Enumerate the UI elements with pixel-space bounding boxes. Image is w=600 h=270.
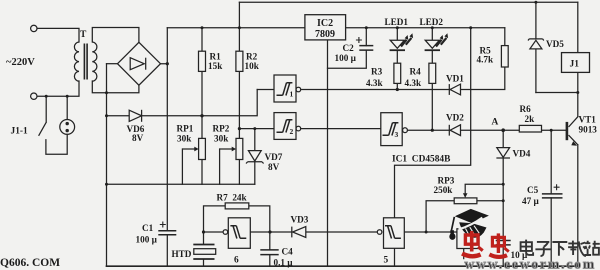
wire gate2 input: [239, 128, 274, 130]
wire 9V rail: [346, 27, 505, 29]
svg-text:4.7k: 4.7k: [477, 55, 494, 65]
svg-text:IC1 CD4584B: IC1 CD4584B: [392, 155, 450, 165]
wire gate3 output to node A to VT1 base: [407, 129, 566, 131]
gate U1e box: [384, 218, 405, 249]
wire gate1 output row: [301, 67, 505, 90]
svg-text:R2: R2: [246, 52, 258, 62]
wire C5 column: [550, 130, 552, 266]
svg-text:VD1: VD1: [446, 74, 464, 84]
capacitor C4 0.1u: [260, 250, 278, 255]
wire C2 connections: [328, 28, 367, 68]
label plus C2: [356, 37, 362, 43]
resistor R3 4.3k: [394, 63, 401, 83]
wire bridge left stub: [107, 63, 118, 65]
svg-text:8V: 8V: [268, 162, 280, 172]
svg-text:C4: C4: [282, 247, 294, 257]
bridge rectifier diamond: [118, 42, 161, 85]
svg-text:HTD: HTD: [172, 249, 192, 259]
svg-text:VD4: VD4: [513, 149, 531, 159]
bridge internal diode: [130, 58, 144, 70]
wire VD6 row: [107, 90, 258, 116]
resistor R4 4.3k: [429, 63, 436, 83]
label plus C1: [160, 222, 166, 228]
wire top rail +12V: [239, 1, 577, 3]
label plus C5: [554, 184, 560, 190]
wire RP3 wiper to VD4 line: [465, 183, 503, 185]
wire VD5 column: [535, 2, 537, 92]
svg-text:C5: C5: [527, 185, 539, 195]
svg-text:RP3: RP3: [438, 176, 455, 186]
svg-text:J1-1: J1-1: [11, 127, 28, 137]
wire terminal top to transformer primary: [37, 28, 79, 42]
capacitor C2 100u: [359, 46, 373, 51]
wire ground drop left: [106, 64, 108, 267]
transformer T secondary winding: [92, 42, 97, 81]
wire RP1 RP2 bottoms: [202, 160, 239, 185]
watermark text dianzi xiazaizhan: [521, 240, 600, 257]
svg-text:10k: 10k: [245, 61, 260, 71]
wire bottom ground rail: [107, 265, 578, 267]
diode VD2: [450, 125, 460, 136]
svg-text:A: A: [492, 118, 499, 128]
svg-text:3: 3: [395, 130, 399, 139]
wire VD7 column: [254, 129, 256, 185]
wire ground rail y184: [107, 183, 255, 185]
piezo HTD: [193, 245, 214, 260]
svg-text:4.3k: 4.3k: [366, 78, 383, 88]
wire secondary top to bridge: [92, 28, 139, 43]
resistor R5 4.7k: [501, 46, 508, 67]
wire J1 leads: [536, 2, 578, 92]
svg-text:2k: 2k: [525, 114, 536, 124]
capacitor C6 10u: [496, 241, 511, 245]
wire R7 leads: [204, 206, 270, 232]
switch J1-1 blade: [39, 122, 47, 136]
LED1: [390, 40, 404, 48]
svg-text:C2: C2: [343, 43, 355, 53]
svg-text:4.3k: 4.3k: [405, 78, 422, 88]
svg-text:T: T: [80, 30, 87, 40]
wire RP2 wiper drop: [219, 149, 221, 184]
wire bridge right stub to C1 line: [161, 28, 168, 266]
wire VD3 to gate6: [270, 231, 292, 233]
svg-text:30k: 30k: [214, 134, 229, 144]
svg-text:Q606. COM: Q606. COM: [0, 257, 60, 269]
svg-text:2: 2: [290, 127, 294, 136]
gate U1a box: [274, 75, 296, 102]
svg-text:LED2: LED2: [420, 17, 444, 27]
potentiometer RP1 30k: [199, 138, 206, 159]
resistor R7 24k: [225, 203, 249, 209]
svg-text:15k: 15k: [208, 61, 223, 71]
capacitor C5 47u: [542, 194, 563, 198]
wire terminal bottom to primary: [37, 81, 79, 96]
diode VD4: [497, 148, 510, 158]
watermark red char chong 2: [489, 233, 508, 257]
svg-text:7809: 7809: [315, 29, 335, 40]
wire VT1 emitter: [569, 136, 578, 267]
potentiometer RP3 250k: [454, 198, 477, 204]
svg-text:C1: C1: [142, 223, 154, 233]
svg-text:5: 5: [384, 256, 389, 266]
resistor R1 15k: [199, 51, 206, 71]
resistor R2 10k: [236, 51, 243, 71]
wire R2 column: [238, 2, 240, 138]
watermark graduation cap logo: [449, 209, 489, 244]
svg-text:VT1: VT1: [579, 115, 597, 125]
svg-text:47 µ: 47 µ: [522, 196, 539, 206]
transistor VT1 9013: [566, 122, 569, 140]
diode VD6 8V: [129, 110, 141, 121]
capacitor C1 100u: [158, 231, 176, 235]
wire R1 column: [201, 28, 203, 139]
svg-text:RP1: RP1: [177, 124, 194, 134]
wire RP1 wiper drop: [181, 149, 183, 184]
transformer T primary winding: [74, 42, 79, 81]
wire LED2 R4 column: [431, 28, 433, 130]
svg-text:30k: 30k: [177, 134, 192, 144]
wire VD4 column: [502, 130, 504, 266]
svg-text:R1: R1: [210, 52, 222, 62]
diode VD5: [530, 40, 542, 49]
wire VDD drop to gate5 pin14 and pin7: [395, 28, 471, 266]
svg-text:R6: R6: [520, 104, 532, 114]
gate U1c box: [381, 113, 402, 146]
svg-text:RP2: RP2: [213, 124, 230, 134]
svg-text:~220V: ~220V: [6, 57, 35, 68]
wire IC2 ground column: [327, 40, 329, 266]
wire gate6 output: [204, 231, 224, 233]
terminal bottom input: [31, 93, 37, 99]
svg-text:100 µ: 100 µ: [335, 53, 357, 63]
svg-text:LED1: LED1: [385, 17, 409, 27]
wire gate4 bottom stub: [463, 249, 465, 259]
svg-text:VD2: VD2: [446, 113, 464, 123]
svg-text:www.eeworm.com: www.eeworm.com: [465, 257, 597, 270]
svg-text:R3: R3: [371, 67, 383, 77]
wire gate2 to gate3: [301, 128, 381, 130]
wire gate5 input: [404, 231, 457, 233]
gate U1f box: [228, 218, 250, 249]
svg-text:IC2: IC2: [317, 18, 333, 29]
wire gate1 input: [257, 89, 274, 91]
wire LED1 column: [396, 28, 398, 90]
IC2 7809 box: [305, 15, 346, 40]
wire VT1 collector: [569, 93, 578, 127]
gate4 hidden box: [457, 229, 479, 249]
svg-text:R4: R4: [410, 67, 422, 77]
zener VD7 8V: [248, 151, 261, 161]
wire switch J1-1 leads and lamp loop: [46, 96, 67, 154]
svg-text:VD3: VD3: [291, 215, 309, 225]
svg-text:250k: 250k: [434, 185, 454, 195]
svg-text:0.1 µ: 0.1 µ: [274, 258, 294, 268]
diode VD3: [293, 227, 306, 238]
gate U1b box: [274, 113, 296, 140]
svg-text:100 µ: 100 µ: [136, 235, 158, 245]
svg-text:VD5: VD5: [546, 39, 564, 49]
wire RP3 terminals: [426, 201, 503, 232]
wire secondary bottom to bridge bottom: [92, 81, 139, 93]
watermark red char chong 1: [462, 231, 483, 256]
wire HTD stubs: [203, 232, 205, 266]
resistor R6 2k: [519, 125, 541, 132]
svg-text:VD7: VD7: [265, 152, 283, 162]
wire gate5 output to VD3: [306, 231, 377, 233]
terminal top input: [31, 25, 37, 31]
transformer T core: [84, 44, 87, 80]
svg-text:8V: 8V: [132, 133, 144, 143]
svg-text:6: 6: [234, 256, 239, 266]
wire gate6 input: [250, 231, 270, 233]
LED2: [425, 40, 439, 48]
diode VD1: [450, 84, 460, 95]
junction dots: [45, 95, 48, 98]
lamp socket XS: [60, 120, 75, 135]
wire C4 stubs: [269, 232, 271, 266]
potentiometer RP2 30k: [236, 138, 243, 159]
svg-text:R7 24k: R7 24k: [217, 193, 248, 203]
wire R5 top stub: [504, 28, 506, 46]
wire unregulated rail left: [167, 27, 305, 29]
svg-text:1: 1: [290, 90, 294, 99]
relay J1 box: [562, 53, 590, 73]
svg-text:J1: J1: [570, 60, 580, 70]
svg-text:9013: 9013: [579, 125, 598, 135]
